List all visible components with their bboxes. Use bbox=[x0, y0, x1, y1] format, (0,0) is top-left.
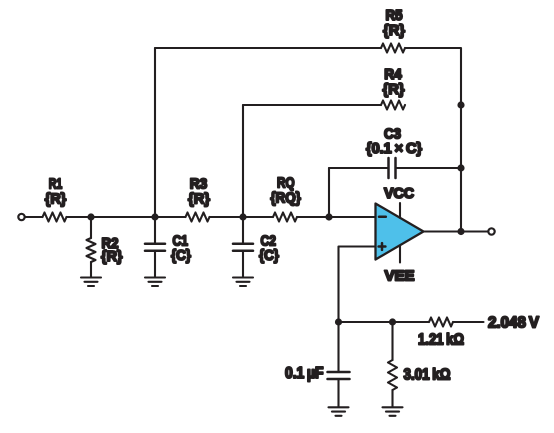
node C3-bus junction bbox=[457, 164, 464, 171]
op-amp U1 bbox=[376, 204, 424, 260]
svg-text:3.01 kΩ: 3.01 kΩ bbox=[404, 367, 451, 384]
R4 feedback wire bbox=[243, 104, 381, 106]
svg-text:0.1 µF: 0.1 µF bbox=[285, 365, 324, 382]
wire node E down to bypass cap bbox=[337, 322, 339, 372]
node A junction bbox=[87, 213, 94, 220]
svg-text:{R}: {R} bbox=[383, 81, 405, 98]
capacitor C2 bbox=[233, 244, 253, 251]
wire R1 to node A bbox=[67, 216, 92, 218]
node C junction bbox=[239, 213, 246, 220]
wire node C up to R4 feedback bbox=[242, 105, 244, 217]
capacitor C1 bbox=[145, 244, 165, 251]
svg-text:VEE: VEE bbox=[385, 268, 415, 285]
node D junction bbox=[325, 213, 332, 220]
resistor R1 bbox=[43, 213, 67, 222]
wire 3.01k to ground bbox=[391, 390, 393, 407]
wire op-amp output bbox=[424, 230, 488, 232]
wire op-amp non-inverting input to bias node bbox=[339, 247, 376, 323]
capacitor C3 bbox=[389, 158, 396, 178]
wire node A down to R2 bbox=[90, 217, 92, 238]
resistor R5 bbox=[381, 44, 405, 53]
node B junction bbox=[151, 213, 158, 220]
wire C1 to ground bbox=[154, 251, 156, 277]
ground under 3.01k bbox=[383, 407, 403, 416]
svg-text:{R}: {R} bbox=[101, 248, 123, 265]
ground under C2 bbox=[233, 278, 253, 287]
resistor R2 bbox=[87, 238, 96, 262]
svg-text:{C}: {C} bbox=[171, 247, 191, 264]
svg-text:{0.1 × C}: {0.1 × C} bbox=[366, 140, 422, 157]
node output junction bbox=[457, 228, 464, 235]
wire node B to R3 bbox=[155, 216, 186, 218]
wire node B up to R5 feedback bbox=[154, 48, 156, 217]
resistor 1.21k bbox=[429, 318, 453, 327]
resistor RQ bbox=[273, 213, 297, 222]
op-amp non-inverting pin mark bbox=[379, 243, 386, 250]
wire R3 to node C bbox=[210, 216, 244, 218]
wire R2 to ground bbox=[90, 262, 92, 277]
node bias F junction bbox=[389, 318, 396, 325]
svg-text:{R}: {R} bbox=[383, 22, 405, 39]
wire node B down to C1 bbox=[154, 217, 156, 244]
wire RQ to node D bbox=[297, 216, 329, 218]
VCC pin bbox=[399, 203, 401, 218]
wire resistor to 2.048V source bbox=[453, 321, 484, 323]
feedback bus wire C3 to output bbox=[460, 168, 462, 232]
wire node A to node B bbox=[91, 216, 155, 218]
svg-text:2.048 V: 2.048 V bbox=[488, 315, 540, 332]
ground under R2 bbox=[81, 278, 101, 287]
wire node D up to C3 feedback bbox=[328, 168, 330, 217]
wire node C to RQ bbox=[243, 216, 273, 218]
ground under bypass cap bbox=[329, 407, 349, 416]
wire node F down to 3.01k bbox=[391, 322, 393, 360]
resistor 3.01k bbox=[388, 360, 397, 390]
op-amp inverting pin mark bbox=[379, 216, 386, 219]
R5 feedback wire top bbox=[155, 47, 381, 49]
input terminal bbox=[18, 214, 24, 220]
svg-text:1.21 kΩ: 1.21 kΩ bbox=[418, 332, 464, 349]
node bias E junction bbox=[335, 318, 342, 325]
wire node C down to C2 bbox=[242, 217, 244, 244]
svg-text:VCC: VCC bbox=[384, 185, 414, 202]
wire R5 to feedback bus corner bbox=[405, 48, 461, 105]
wire node D to op-amp inverting input bbox=[329, 216, 376, 218]
C3 feedback wire bbox=[329, 167, 388, 169]
wire node F to bias resistor bbox=[393, 321, 430, 323]
wire C3 to feedback bus bbox=[397, 167, 462, 169]
svg-text:{R}: {R} bbox=[45, 191, 67, 208]
svg-text:{C}: {C} bbox=[259, 247, 279, 264]
resistor R3 bbox=[186, 213, 210, 222]
wire bias node E to node F bbox=[339, 321, 393, 323]
ground under C1 bbox=[145, 278, 165, 287]
wire cap to ground bbox=[337, 379, 339, 407]
output terminal bbox=[488, 228, 494, 234]
resistor R4 bbox=[381, 101, 405, 110]
wire input to R1 bbox=[26, 216, 43, 218]
svg-text:{R}: {R} bbox=[188, 191, 210, 208]
VEE pin bbox=[399, 246, 401, 263]
capacitor 0.1uF bbox=[328, 372, 350, 379]
svg-text:{RQ}: {RQ} bbox=[270, 190, 301, 207]
node R4-bus junction bbox=[457, 101, 464, 108]
feedback bus wire R4 to C3 bbox=[460, 105, 462, 168]
wire C2 to ground bbox=[242, 251, 244, 277]
